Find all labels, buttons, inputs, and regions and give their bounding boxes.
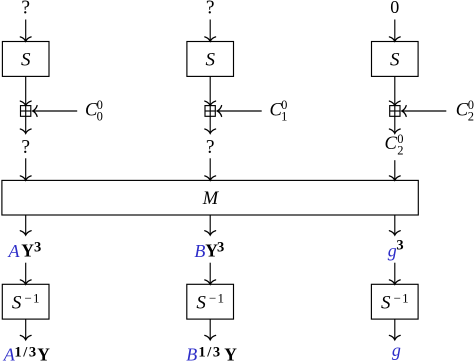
S-box S (column 3) [372, 42, 419, 77]
constant arrow C_2^0 into xor (column 3) [402, 106, 447, 117]
wire into M (column 1) [20, 158, 31, 180]
inverse S-box S^-1 (column 3) [371, 284, 418, 319]
svg-text:M: M [202, 189, 220, 209]
output label g [392, 340, 401, 360]
label AY^3 [8, 240, 42, 261]
output label A^{1/3}Y [3, 344, 51, 361]
svg-text:2: 2 [468, 110, 474, 124]
svg-text:−1: −1 [25, 291, 41, 306]
svg-text:2: 2 [397, 144, 403, 158]
svg-text:S: S [390, 49, 400, 70]
mixing layer box M [2, 180, 418, 215]
wire xor down (column 2) [205, 116, 216, 133]
wire inverse S-box to output (column 3) [389, 319, 400, 340]
wire S-box to xor (column 2) [205, 76, 216, 105]
wire label to inverse S-box (column 1) [20, 263, 31, 285]
svg-text:S: S [381, 292, 391, 313]
wire label to inverse S-box (column 3) [389, 263, 400, 285]
wire xor down (column 1) [20, 116, 31, 133]
constant arrow C_1^0 into xor (column 2) [217, 106, 262, 117]
wire into M (column 3) [389, 160, 400, 180]
svg-text:1/3: 1/3 [14, 344, 37, 360]
svg-text:−1: −1 [209, 291, 225, 306]
svg-text:Y: Y [224, 345, 237, 361]
wire label to inverse S-box (column 2) [205, 263, 216, 285]
wire M to label (column 1) [20, 215, 31, 235]
wire M to label (column 3) [389, 215, 400, 235]
svg-text:A: A [8, 241, 21, 261]
S-box S (column 1) [2, 42, 49, 77]
svg-text:?: ? [21, 137, 30, 158]
svg-text:0: 0 [390, 0, 399, 17]
wire input to S-box (column 3) [389, 20, 400, 42]
svg-text:S: S [21, 49, 31, 70]
output label B^{1/3}Y [186, 344, 237, 361]
svg-text:?: ? [206, 137, 215, 158]
xor (boxed plus) (column 2) [205, 106, 215, 117]
svg-text:?: ? [21, 0, 30, 19]
label g^3 [388, 238, 404, 261]
svg-text:1/3: 1/3 [198, 344, 221, 360]
inverse S-box S^-1 (column 2) [187, 284, 234, 319]
wire input to S-box (column 2) [205, 20, 216, 42]
wire inverse S-box to output (column 2) [205, 319, 216, 340]
svg-text:C: C [385, 134, 398, 154]
svg-text:3: 3 [396, 238, 403, 254]
S-box S (column 2) [187, 42, 234, 77]
xor (boxed plus) (column 3) [390, 106, 400, 117]
xor (boxed plus) (column 1) [21, 106, 31, 117]
svg-text:S: S [12, 292, 22, 313]
svg-text:Y: Y [21, 241, 34, 261]
label C_2^0 (column 3) [385, 132, 404, 158]
label C_2^0 (right, clipped) [456, 98, 474, 123]
svg-text:B: B [186, 345, 197, 361]
svg-text:Y: Y [37, 345, 50, 361]
wire S-box to xor (column 3) [389, 76, 400, 105]
label BY^3 [194, 240, 224, 261]
inverse S-box S^-1 (column 1) [2, 284, 49, 319]
svg-text:?: ? [206, 0, 215, 19]
svg-text:1: 1 [281, 110, 287, 124]
wire inverse S-box to output (column 1) [20, 319, 31, 340]
svg-text:S: S [196, 292, 206, 313]
label C_1^0 [270, 98, 288, 123]
svg-text:B: B [194, 241, 205, 261]
constant arrow C_0^0 into xor (column 1) [33, 106, 77, 117]
wire into M (column 2) [205, 158, 216, 180]
svg-text:g: g [392, 340, 401, 360]
wire S-box to xor (column 1) [20, 76, 31, 105]
wire xor down (column 3) [389, 116, 400, 133]
svg-text:3: 3 [217, 240, 224, 256]
svg-text:0: 0 [97, 110, 103, 124]
label C_0^0 [85, 98, 103, 123]
wire M to label (column 2) [205, 215, 216, 235]
svg-text:S: S [205, 49, 215, 70]
svg-text:3: 3 [34, 240, 41, 256]
wire input to S-box (column 1) [20, 20, 31, 42]
svg-text:−1: −1 [394, 291, 410, 306]
